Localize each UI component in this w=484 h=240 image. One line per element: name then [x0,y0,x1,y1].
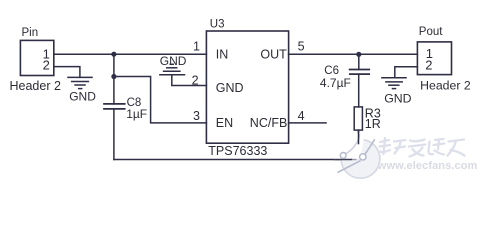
svg-text:1: 1 [193,40,200,54]
svg-text:TPS76333: TPS76333 [208,144,267,158]
svg-text:NC/FB: NC/FB [250,116,288,130]
svg-text:GND: GND [160,54,187,68]
wire header pin2 to left ground [54,67,80,78]
svg-text:GND: GND [384,91,411,105]
svg-text:3: 3 [193,109,200,123]
svg-text:5: 5 [298,40,305,54]
capacitor C8 plates [104,104,125,109]
svg-text:2: 2 [192,74,199,88]
svg-text:1R: 1R [365,117,381,131]
watermark small circle A [340,153,346,159]
svg-text:OUT: OUT [260,47,287,61]
ground GND mid bars (inverted, at U3 pin2) [160,64,185,75]
svg-text:GND: GND [69,90,96,104]
svg-text:GND: GND [216,81,244,95]
ground GND left [68,77,92,88]
svg-text:Header 2: Header 2 [420,79,471,93]
wire Pout pin2 to right ground [395,67,418,78]
watermark needle upper segment [364,139,375,156]
svg-text:1µF: 1µF [126,107,147,121]
junction node VOUT/C6 [356,52,361,57]
wire R3 bottom to bottom rail [358,130,360,159]
svg-text:U3: U3 [210,18,225,30]
IC U3 box [206,31,288,143]
svg-text:Pin: Pin [22,27,39,39]
svg-text:4: 4 [298,109,305,123]
wire VIN vertical to junction [113,54,115,76]
wire bottom rail remnant over watermark [333,159,352,161]
connector Pout header box [417,42,451,75]
svg-text:Header 2: Header 2 [10,79,61,93]
wire C8 bottom to bottom rail [113,109,115,160]
svg-text:Pout: Pout [419,26,443,38]
junction node C8/EN [111,74,116,79]
watermark logo disk [333,130,380,178]
wire junction down to C8 [113,77,115,104]
ground GND right [382,78,406,89]
svg-text:2: 2 [43,57,50,72]
svg-text:4.7µF: 4.7µF [320,76,351,90]
connector Pin header box [20,40,53,75]
resistor R3 lower lead (visible over watermark) [358,130,360,144]
svg-text:IN: IN [216,47,229,61]
wire VOUT rail (U3 OUT to Pout pin1) [289,53,418,55]
svg-text:www.elecfans.com: www.elecfans.com [377,160,478,172]
wire VOUT junction down to C6 [358,54,360,69]
watermark chinese characters (stylised light strokes) [379,138,465,157]
wire VIN rail (header pin1 to IC IN) [54,53,207,55]
junction node VIN/C8 [111,52,116,57]
watermark leaf highlight wedge [333,133,365,160]
svg-text:EN: EN [216,116,233,130]
wire C6 bottom to R3 top [358,74,360,107]
resistor R3 body [354,107,362,130]
wire NC/FB stub [289,122,326,124]
svg-text:2: 2 [425,58,432,73]
watermark stem curve [346,134,360,154]
watermark small circle B [360,154,366,160]
watermark needle lower segment [338,161,361,173]
wire bottom rail (C8 to R3 bottom) [114,159,359,161]
wire mid ground stub to U3 GND pin [172,75,207,86]
wire junction to EN pin of U3 [114,77,206,123]
capacitor C6 plates [350,70,370,75]
